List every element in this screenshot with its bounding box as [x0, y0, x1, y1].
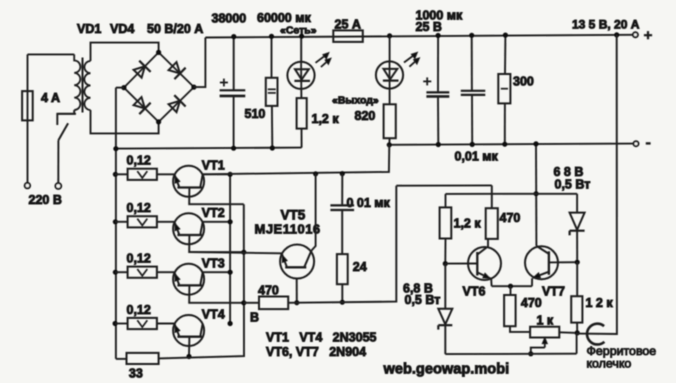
svg-text:VT2: VT2 [202, 206, 225, 220]
resistor R1 510 body [266, 78, 278, 106]
label 1,2 к [312, 112, 340, 126]
label 1 2 к [586, 296, 614, 310]
wire secondary bottom to bridge AC2 [91, 110, 159, 133]
LED HL1 arrow 1 [316, 53, 329, 63]
node bus B VT2 base [241, 250, 246, 255]
label VT1 VT4 2N3055 [266, 331, 377, 345]
wire VT2 base / VT5 emitter line [189, 252, 282, 253]
wire VT1 collector to bus A [203, 173, 231, 175]
svg-text:1,2 к: 1,2 к [454, 217, 482, 231]
node C2 top [436, 33, 441, 38]
wire VT2 base run [189, 235, 244, 252]
wire top line 2 [446, 193, 578, 195]
svg-text:0,12: 0,12 [127, 154, 151, 168]
resistor 0,12 (row 2) body [128, 216, 157, 227]
transistor VT3 emitter [175, 273, 180, 286]
transistor VT2 circle [173, 213, 204, 244]
wire R7 to VT5 base line [288, 302, 297, 304]
node plus output branch [614, 32, 619, 37]
label 0,12 (row 4) [127, 303, 151, 317]
label 6 8 В [554, 165, 584, 179]
wire node to R10 [510, 286, 512, 295]
wire VT2 collector to bus A [203, 221, 231, 223]
resistor R4 power mark [501, 88, 508, 90]
transistor VT3 circle [173, 264, 204, 295]
svg-text:В: В [250, 310, 259, 324]
node bus A row 4 [228, 321, 233, 326]
transistor VT2 emitter [175, 222, 180, 235]
wire output minus rail [389, 144, 633, 145]
label B node [250, 310, 259, 324]
node bus A row 2 [228, 219, 233, 224]
zener VD6 triangle [570, 213, 585, 230]
svg-text:VT6, VT7 2N904: VT6, VT7 2N904 [266, 345, 366, 359]
svg-text:0,12: 0,12 [127, 252, 151, 266]
label 25 В [416, 20, 442, 34]
resistor R4 300 body [498, 74, 510, 103]
svg-text:0,5 Вт: 0,5 Вт [555, 177, 591, 191]
resistor R5 33 body [127, 353, 159, 364]
LED HL2 cathode bar [383, 79, 399, 81]
label 4 A [41, 91, 60, 105]
wire node to R12 [576, 262, 578, 296]
svg-text:0,5 Вт: 0,5 Вт [405, 293, 441, 307]
wire plus output drop [577, 35, 617, 334]
node C2 bottom [436, 142, 441, 147]
wire top line 1 (to 470) [396, 184, 492, 186]
node supply riser on line 2 [534, 191, 539, 196]
label VD4 [110, 22, 134, 36]
transformer T1 primary winding [74, 54, 80, 110]
wire bridge minus to left bus [116, 87, 124, 89]
node VT5 base [294, 300, 299, 305]
potentiometer R11 wiper arrow [542, 338, 547, 348]
wire primary bottom lead [57, 110, 74, 114]
wire VT7 emitter down [531, 278, 533, 286]
wire VT3 collector to bus A [203, 271, 231, 273]
resistor R4 300 lead top [504, 35, 506, 74]
transistor VT6 collector [477, 248, 486, 255]
transformer T1 secondary winding [84, 61, 90, 110]
label 0 01 мк [347, 196, 391, 210]
wire collector feed line [203, 145, 390, 175]
diode VD3 (left-top arm) [134, 61, 151, 78]
svg-text:VD4: VD4 [110, 22, 134, 36]
wire mains top [28, 53, 75, 55]
svg-text:0,01 мк: 0,01 мк [455, 150, 499, 164]
node C3 top [469, 33, 474, 38]
wire collector bus A [229, 174, 231, 323]
transistor VT1 emitter [175, 175, 180, 188]
wire resistor to VT4 emitter [157, 323, 175, 325]
wire bus to resistor R11 [115, 173, 127, 175]
wire secondary top to bridge AC1 [91, 43, 159, 61]
node R3 bottom [387, 142, 392, 147]
node bus A row 3 [228, 270, 233, 275]
zener VD6 lead bottom [576, 231, 578, 263]
svg-text:колечко: колечко [587, 357, 632, 371]
capacitor C4 0,01uF lead top [341, 174, 343, 206]
transistor VT7 circle [525, 246, 558, 279]
label VT6 VT7 2N904 [266, 345, 366, 359]
switch SA1 lever [58, 123, 68, 140]
capacitor C2 1000uF lead top [437, 36, 439, 93]
label plus sign [644, 31, 652, 39]
label колечко [587, 357, 632, 371]
transistor VT3 collector [200, 273, 202, 286]
node VT7 base zener [575, 260, 580, 265]
transistor VT2 base bar [177, 234, 202, 236]
label 0,12 (row 3) [127, 252, 151, 266]
wire 470 top riser [491, 185, 493, 208]
fuse FU1 4A [22, 91, 33, 120]
svg-text:25 В: 25 В [416, 20, 442, 34]
zener VD6 lead top [576, 194, 578, 213]
capacitor C1 lead bottom [233, 96, 235, 148]
label minus sign [646, 142, 651, 144]
svg-text:470: 470 [500, 211, 521, 225]
label VT1 [202, 159, 225, 173]
zener VD5 lead bottom [444, 325, 446, 354]
resistor R9 1,2k body [440, 207, 452, 238]
svg-text:MJE11016: MJE11016 [255, 222, 321, 237]
label «Выход» [332, 95, 379, 107]
label 470 (R10) [521, 296, 542, 310]
label VT3 [202, 256, 225, 270]
node wiper on bottom bus [528, 351, 533, 356]
capacitor C1 plus sign [220, 79, 228, 87]
resistor R2 1,2k body [297, 98, 307, 129]
svg-text:web.geowap.mobi: web.geowap.mobi [383, 362, 510, 378]
label 25 А [335, 17, 361, 31]
LED HL1 triangle [295, 69, 309, 79]
wire bus to resistor R12 [115, 221, 127, 223]
terminal plus output [633, 32, 638, 37]
wire base bus B [159, 204, 244, 358]
node R6 bottom [340, 300, 345, 305]
label 6,8 В (VD5) [403, 282, 433, 296]
svg-text:VT3: VT3 [202, 256, 225, 270]
label 0,5 Вт (VD6) [555, 177, 591, 191]
transistor VT4 circle [173, 315, 204, 346]
svg-text:60000 мк: 60000 мк [257, 11, 311, 25]
transistor VT7 base bar [548, 251, 550, 274]
label 0,12 (row 1) [127, 154, 151, 168]
label 470 (R8) [500, 211, 521, 225]
resistor R1 power marks [268, 89, 276, 93]
svg-text:1 к: 1 к [537, 314, 554, 328]
wire pot right terminal [559, 331, 577, 334]
node R4 bottom [502, 142, 507, 147]
transistor VT4 collector [200, 324, 202, 337]
node minus rail left bus [113, 146, 118, 151]
label 220 В [29, 193, 62, 207]
svg-text:33: 33 [129, 366, 143, 380]
svg-text:VT1 VT4 2N3055: VT1 VT4 2N3055 [266, 331, 377, 345]
node bottom right [575, 330, 580, 335]
wire VT5 base down [296, 279, 298, 303]
wire bottom bus right segment [445, 353, 576, 355]
LED HL1 Сеть lead top [300, 36, 302, 61]
svg-text:VT6: VT6 [463, 285, 486, 299]
wire supply riser to VT7 [535, 144, 537, 246]
node common emitter [508, 284, 513, 289]
zener VD5 triangle [438, 309, 452, 325]
LED HL2 wire through [389, 62, 391, 89]
wire R10 to pot [510, 326, 530, 332]
label 50 В/20 А [147, 22, 203, 36]
transistor VT5 collector [304, 251, 311, 268]
label 13 5 В, 20 А [572, 17, 640, 31]
wire bus to resistor R14 [115, 323, 127, 325]
label 0,12 (row 2) [127, 201, 151, 215]
svg-text:24: 24 [353, 260, 367, 274]
LED HL1 arrow 2 [321, 58, 331, 67]
transistor VT1 base bar [177, 186, 202, 188]
potentiometer R11 wiper lead [531, 348, 545, 354]
wire bottom bus riser [576, 333, 578, 354]
transistor VT5 base bar [285, 266, 306, 268]
resistor R6 lead bottom [341, 284, 343, 302]
wire left bus to 33 resistor [116, 358, 127, 360]
node C1 top [231, 34, 236, 39]
wire resistor to VT3 emitter [157, 271, 175, 273]
node HL1 top [299, 34, 304, 39]
wire R3 to minus rail [388, 138, 390, 145]
wire bus B to R7 [244, 302, 259, 304]
svg-text:25 А: 25 А [335, 17, 361, 31]
fuse FU2 25A body [333, 30, 363, 42]
resistor R1 510 lead top [271, 36, 273, 77]
label 33 [129, 366, 143, 380]
LED HL2 triangle [384, 69, 398, 79]
wire bus to resistor R13 [115, 271, 127, 273]
svg-text:13 5 В, 20 А: 13 5 В, 20 А [572, 17, 640, 31]
wire common emitter line [492, 285, 532, 287]
resistor 0,12 (row 1) power mark V [137, 171, 147, 178]
node feed RC chain [340, 171, 345, 176]
label 510 [245, 107, 266, 121]
svg-text:510: 510 [245, 107, 266, 121]
transistor VT4 emitter [175, 324, 180, 337]
node bridge AC bottom [156, 119, 161, 124]
wire VT6 emitter down [490, 279, 492, 286]
transistor VT5 emitter [282, 254, 287, 267]
capacitor C1 plates [220, 90, 246, 96]
wire VT4 base down [188, 337, 190, 357]
wire mains left lead [27, 54, 29, 183]
watermark web.geowap.mobi [383, 362, 510, 378]
wire VT5 base to right riser [297, 186, 397, 303]
svg-text:470: 470 [258, 283, 279, 297]
svg-text:VT7: VT7 [542, 285, 565, 299]
resistor 0,12 (row 4) power mark V [137, 320, 147, 327]
node R1 bottom [270, 145, 275, 150]
label VT2 [202, 206, 225, 220]
capacitor C2 lead bottom [437, 96, 439, 144]
svg-text:0,12: 0,12 [127, 303, 151, 317]
capacitor C4 plates [330, 205, 354, 210]
wire left minus rail [116, 148, 302, 149]
svg-text:1 2 к: 1 2 к [586, 296, 614, 310]
capacitor C3 lead bottom [471, 95, 473, 144]
capacitor C2 plates [426, 92, 449, 96]
svg-text:820: 820 [355, 109, 376, 123]
label Ферритовое [587, 344, 657, 358]
resistor 0,12 (row 1) body [128, 169, 157, 180]
wire resistor to VT1 emitter [157, 173, 175, 175]
LED HL1 circle [287, 62, 314, 89]
wire VT5 collector riser [311, 174, 315, 251]
diode VD2 (bottom-right arm) [169, 95, 186, 112]
node VT6 base [443, 261, 448, 266]
svg-text:50 В/20 А: 50 В/20 А [147, 22, 203, 36]
svg-text:«Выход»: «Выход» [332, 95, 379, 107]
resistor R12 1 2 к body [571, 296, 582, 322]
svg-text:38000: 38000 [212, 11, 247, 25]
zener VD5 lead top [444, 264, 446, 309]
label 820 [355, 109, 376, 123]
terminal 220V left [25, 183, 30, 188]
ferrite ring [587, 324, 604, 345]
LED HL2 Выход lead top [389, 36, 391, 62]
LED HL2 arrow 2 [409, 58, 419, 67]
bridge diamond wires [124, 52, 194, 122]
svg-text:0,12: 0,12 [127, 201, 151, 215]
transistor VT1 collector [200, 175, 202, 188]
zener VD5 cathode bar [438, 325, 452, 329]
svg-text:VT5: VT5 [281, 208, 306, 223]
label VT7 [542, 285, 565, 299]
wire HL1 to resistor [300, 89, 302, 98]
wire VT1 base run [189, 188, 244, 205]
transformer T1 core [82, 58, 84, 113]
LED HL2 circle [376, 61, 403, 88]
LED HL2 arrow 1 [404, 52, 417, 62]
node R1 top [269, 34, 274, 39]
transistor VT2 collector [200, 222, 202, 235]
wire left bus vertical [115, 88, 117, 359]
node feed VT5 collector [313, 171, 318, 176]
label 0,01 мк [455, 150, 499, 164]
resistor R3 820 body [384, 104, 396, 138]
wire switch to terminal [57, 140, 59, 183]
wire 1,2k top riser [445, 194, 447, 208]
node bus B VT3 base [241, 300, 246, 305]
label VT6 [463, 285, 486, 299]
wire VT3 base run [189, 285, 244, 302]
node supply riser on minus rail [533, 141, 538, 146]
wire resistor to VT2 emitter [157, 221, 175, 223]
diode VD4 (left-bottom arm) [134, 97, 151, 114]
svg-text:0 01 мк: 0 01 мк [347, 196, 391, 210]
node C1 bottom [231, 146, 236, 151]
wire R12 to bottom node [576, 323, 578, 333]
potentiometer R11 1k body [530, 327, 559, 338]
label 38000 [212, 11, 247, 25]
transistor VT6 emitter [477, 272, 491, 278]
wire R8 to VT6 collector [487, 239, 489, 247]
label 470 (base) [258, 283, 279, 297]
transistor VT7 collector [536, 246, 549, 254]
svg-text:220 В: 220 В [29, 193, 62, 207]
label 300 [513, 75, 534, 89]
resistor R8 470 body [486, 208, 498, 239]
wire R9 to VT6 base node [444, 239, 446, 264]
transistor VT7 base wire [549, 261, 577, 263]
node left bus row 3 [113, 270, 118, 275]
capacitor C2 plus sign [423, 77, 431, 85]
transistor VT5 circle [280, 245, 314, 279]
node bus A row 1 [228, 172, 233, 177]
resistor R4 lead bottom [504, 103, 506, 144]
label «Сеть» [280, 25, 317, 37]
switch SA1 fixed contact [57, 114, 76, 125]
svg-text:VT4: VT4 [202, 308, 225, 322]
resistor 0,12 (row 3) body [128, 267, 157, 278]
svg-text:VD1: VD1 [77, 22, 101, 36]
resistor 0,12 (row 2) power mark V [137, 219, 147, 226]
capacitor C3 plates [461, 91, 486, 95]
resistor R6 24 body [337, 254, 348, 284]
wire R2 to minus rail [301, 129, 303, 148]
svg-text:470: 470 [521, 296, 542, 310]
LED HL1 wire through [300, 62, 302, 89]
label 0,5 Вт (VD5) [405, 293, 441, 307]
transistor VT4 base bar [177, 336, 202, 338]
transistor VT3 base bar [177, 284, 202, 286]
label 1 к [537, 314, 554, 328]
node bridge DC plus [191, 85, 196, 90]
capacitor C1 38000-60000uF lead top [233, 37, 235, 91]
node left bus row 2 [113, 219, 118, 224]
label 1,2 к (R9) [454, 217, 482, 231]
zener VD6 cathode bar [570, 231, 585, 236]
resistor R10 470 body [504, 295, 515, 326]
LED HL1 cathode bar [294, 80, 310, 82]
label 60000 мк [257, 11, 311, 25]
capacitor C3 0,01uF lead top [471, 35, 473, 91]
svg-text:«Сеть»: «Сеть» [280, 25, 317, 37]
label VT4 [202, 308, 225, 322]
label VD1 [77, 22, 101, 36]
resistor R1 510 lead bottom [271, 106, 273, 148]
node R4 top [503, 33, 508, 38]
resistor 0,12 (row 3) power mark V [137, 269, 147, 276]
terminal 220V right [55, 183, 61, 189]
node bridge DC minus [121, 85, 126, 90]
resistor R7 470 body [259, 297, 288, 310]
transistor VT6 base bar [476, 252, 478, 276]
diode VD1 (top-right arm) [169, 62, 186, 79]
svg-text:VT1: VT1 [202, 159, 225, 173]
resistor 0,12 (row 4) body [128, 318, 157, 329]
node HL2 top [387, 33, 392, 38]
capacitor C4 lead middle [341, 210, 343, 254]
label MJE11016 [255, 222, 321, 237]
svg-text:4 A: 4 A [41, 91, 60, 105]
node left bus row 4 [113, 321, 118, 326]
node C3 bottom [470, 142, 475, 147]
node left bus row 1 [113, 172, 118, 177]
transistor VT6 circle [468, 247, 501, 280]
wire bridge plus to top rail [194, 38, 206, 88]
label VT5 [281, 208, 306, 223]
transistor VT7 emitter [533, 272, 549, 278]
transistor VT6 base wire [445, 263, 477, 265]
node bridge AC top [156, 50, 161, 55]
svg-text:300: 300 [513, 75, 534, 89]
